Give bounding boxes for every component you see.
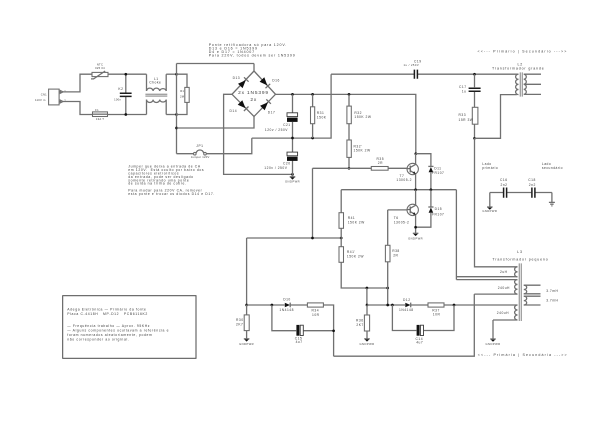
wire left bus vertical	[176, 64, 178, 154]
wire bridge minus to ground bus	[224, 94, 293, 174]
node T7 emitter / T6 collector	[414, 188, 417, 191]
svg-text:<<--- Primário | Secundário --: <<--- Primário | Secundário --->>	[477, 49, 567, 53]
ground GNDPWR L3	[486, 339, 501, 346]
svg-text:2n2: 2n2	[501, 183, 508, 187]
node C20 bottom	[291, 173, 294, 176]
svg-text:13A T: 13A T	[96, 117, 104, 121]
resistor R41 150K 2W	[339, 190, 365, 247]
wire bridge top stem	[253, 64, 255, 72]
ground GNDPWR R36	[360, 339, 375, 346]
capacitor C17 1u	[459, 74, 481, 107]
node R31 top	[311, 93, 314, 96]
wire drop to pulse line	[246, 238, 248, 305]
svg-text:GNDPWR: GNDPWR	[486, 342, 501, 346]
svg-text:T6: T6	[394, 216, 399, 220]
svg-text:D15: D15	[435, 207, 443, 211]
node C21 top	[291, 93, 294, 96]
svg-text:Transformador grande: Transformador grande	[492, 67, 545, 71]
capacitor C16 2n2	[490, 178, 532, 198]
svg-text:2R: 2R	[378, 161, 383, 165]
ground GNDPWR T6	[408, 233, 423, 240]
svg-text:2n2: 2n2	[529, 183, 536, 187]
fuse F1	[93, 108, 108, 121]
svg-text:GNDPWR: GNDPWR	[285, 179, 300, 183]
svg-text:primário: primário	[482, 166, 498, 170]
transformer L2 primary	[516, 74, 519, 94]
resistor R32 150K 2W	[347, 94, 372, 140]
svg-text:R33: R33	[459, 113, 467, 117]
resistor R32b 150K 2W	[347, 140, 371, 168]
resistor R31 150K	[311, 94, 327, 138]
svg-text:T7: T7	[400, 174, 405, 178]
svg-text:150K 2W: 150K 2W	[354, 115, 371, 119]
wire T7 base line	[313, 167, 408, 169]
svg-text:— Alguns componentes ocultavam: — Alguns componentes ocultavam a referên…	[67, 329, 169, 333]
rectifier bridge outline	[232, 71, 276, 117]
svg-text:<<--- Primária | Secundária --: <<--- Primária | Secundária --->>	[478, 353, 568, 357]
ground earth C18	[549, 193, 555, 206]
svg-text:D10: D10	[283, 297, 291, 301]
resistor R34 10R	[307, 303, 333, 356]
svg-text:4u7: 4u7	[416, 341, 423, 345]
node R41b line mid	[366, 287, 369, 290]
node feedback drop	[311, 237, 314, 240]
ground GNDPWR C20	[285, 174, 300, 183]
svg-text:C16: C16	[500, 178, 508, 182]
node T7 collector / D11 top	[414, 152, 417, 155]
node winding3 feed	[453, 304, 456, 307]
node D11 bottom / D15 top	[430, 188, 433, 191]
wire bottom feedback rail	[334, 294, 475, 356]
svg-text:1N4148: 1N4148	[279, 308, 294, 312]
wire T6 rail to L3 tap	[456, 190, 517, 280]
svg-text:secundário: secundário	[542, 166, 563, 170]
transformer L3 winding3 240uH	[515, 305, 518, 320]
node jumper-line R31	[311, 137, 314, 140]
node base line R32b	[348, 167, 351, 170]
transformer L3 secondary B	[524, 296, 541, 305]
wire choke top out	[166, 73, 176, 75]
node C15 return	[332, 329, 335, 332]
svg-text:F1: F1	[95, 108, 99, 112]
wire L3 winding3 top lead	[515, 304, 518, 306]
wire L3 winding3 bottom lead	[493, 320, 518, 339]
wire base feedback drop	[247, 168, 342, 238]
svg-text:Transformador pequeno: Transformador pequeno	[492, 257, 548, 261]
wire jumper midpoint line	[252, 74, 331, 138]
capacitor C14 4u7	[392, 305, 454, 345]
svg-text:2K7: 2K7	[356, 323, 363, 327]
wire pulse line 1	[247, 304, 285, 306]
svg-text:Para 220V, todos devem ser 1N5: Para 220V, todos devem ser 1N5399	[209, 53, 296, 57]
svg-text:Jumper 120V: Jumper 120V	[191, 155, 210, 159]
capacitor K2 100n	[114, 74, 132, 114]
svg-text:3.7mH: 3.7mH	[546, 289, 558, 293]
svg-text:Choke: Choke	[149, 81, 161, 85]
resistor R37 10R	[428, 303, 515, 317]
resistor R38 2R	[385, 210, 399, 305]
ground GNDPWR C16	[482, 193, 497, 213]
diode D13	[233, 76, 249, 88]
svg-text:1u: 1u	[462, 89, 467, 93]
wire emitter rail	[341, 189, 456, 191]
svg-text:D17: D17	[268, 110, 276, 114]
wire mid drop to pulse line	[366, 288, 368, 305]
svg-text:120v / 250V: 120v / 250V	[264, 166, 287, 170]
node C15 branch	[271, 304, 274, 307]
svg-text:Placa C-4418H MP-D12 PCB61: Placa C-4418H MP-D12 PCB6116K2	[67, 312, 148, 316]
svg-text:C19: C19	[414, 59, 422, 63]
note title box	[63, 296, 196, 359]
diode D11 FR107	[428, 166, 444, 189]
wire NTC to node	[108, 73, 147, 75]
svg-text:C21: C21	[283, 123, 291, 127]
node R33 bottom	[473, 137, 476, 140]
wire pin1 to NTC	[63, 74, 92, 92]
svg-text:240uH: 240uH	[497, 311, 509, 315]
node T6 emitter	[414, 226, 417, 229]
svg-text:JP1: JP1	[196, 144, 203, 148]
jumper JP1	[177, 138, 252, 159]
wire choke bottom out	[166, 114, 176, 116]
wire fuse to node	[108, 114, 147, 116]
svg-text:2uH: 2uH	[500, 270, 508, 274]
capacitor C18 2n2	[528, 178, 552, 198]
svg-text:K2: K2	[118, 87, 123, 91]
resistor R30 2K7	[236, 305, 249, 339]
transformer L3 winding1 2uH	[515, 267, 518, 277]
diode D17	[260, 99, 275, 114]
svg-text:não corresponder ao original.: não corresponder ao original.	[67, 337, 129, 341]
resistor R41b 150K 2W	[339, 247, 388, 288]
svg-text:D13: D13	[233, 76, 241, 80]
connector CN1	[35, 89, 66, 105]
wire T6 base line	[388, 209, 407, 211]
transformer L2 core	[520, 72, 522, 96]
svg-text:CN1: CN1	[41, 93, 47, 97]
resistor R35 2R	[371, 157, 388, 170]
node R38 chain join	[386, 287, 389, 290]
transistor T6 13005-2	[394, 190, 419, 234]
svg-text:GNDPWR: GNDPWR	[360, 342, 375, 346]
svg-text:150K 2W: 150K 2W	[348, 220, 365, 224]
note rectifier text	[209, 43, 296, 58]
node R41 midpoint	[340, 237, 343, 240]
svg-text:2R: 2R	[393, 253, 398, 257]
svg-text:de solda na trilha de cobre.: de solda na trilha de cobre.	[128, 182, 186, 186]
svg-text:1N4148: 1N4148	[399, 308, 414, 312]
wire L2 primary return	[475, 95, 517, 139]
capacitor C19 1u/250V	[331, 59, 518, 79]
svg-text:D16: D16	[272, 78, 280, 82]
node junction top K2	[124, 73, 127, 76]
node C14 branch	[391, 304, 394, 307]
svg-text:025 04: 025 04	[95, 66, 105, 70]
svg-text:L3: L3	[517, 250, 523, 254]
svg-text:150K 2W: 150K 2W	[347, 254, 364, 258]
transformer L3 core	[519, 263, 521, 321]
wire top rail to bridge	[177, 63, 255, 65]
transformer L2 secondary	[524, 74, 541, 94]
svg-text:foram numerados aleatoriamente: foram numerados aleatoriamente, podem	[67, 333, 152, 337]
svg-text:13005-2: 13005-2	[394, 220, 410, 224]
resistor R1 2M	[177, 74, 190, 114]
transistor T7 13005-2	[396, 154, 418, 190]
svg-text:3.7mH: 3.7mH	[546, 299, 558, 303]
node pulse line 2 left	[366, 304, 369, 307]
svg-text:D11: D11	[434, 167, 441, 171]
svg-text:15R 3W: 15R 3W	[459, 118, 474, 122]
svg-text:— Frequência trabalho — Aprox.: — Frequência trabalho — Aprox. 95KHz	[67, 324, 150, 328]
svg-text:2x: 2x	[250, 97, 257, 103]
transformer L3 winding2 240uH	[515, 280, 518, 295]
svg-text:FR107: FR107	[432, 171, 444, 175]
node R38 bottom	[386, 304, 389, 307]
svg-text:Adega Eletrônica — Primário da: Adega Eletrônica — Primário da fonte	[67, 308, 146, 312]
svg-text:GNDPWR: GNDPWR	[408, 236, 423, 240]
svg-text:100n: 100n	[114, 97, 121, 101]
svg-text:150K: 150K	[317, 115, 327, 119]
note jumper text	[128, 165, 215, 196]
wire pulse line 2	[367, 304, 405, 306]
resistor R36 2K7	[356, 305, 370, 339]
diode D14	[230, 100, 249, 113]
svg-text:120v / 250V: 120v / 250V	[265, 128, 288, 132]
wire HV+ rail	[276, 94, 416, 153]
svg-text:R36: R36	[356, 319, 364, 323]
resistor R33 15R 3W	[459, 107, 478, 138]
svg-text:4u7: 4u7	[296, 340, 303, 344]
diode D15 FR107	[416, 190, 445, 228]
thermistor NTC	[91, 62, 108, 79]
ground GNDPWR R30	[239, 339, 254, 346]
capacitor C20 120u/250V	[264, 138, 297, 174]
svg-text:2x 1N5399: 2x 1N5399	[238, 90, 269, 96]
diode D10 1N4148	[279, 297, 307, 311]
svg-text:C20: C20	[283, 161, 291, 165]
svg-text:FR107: FR107	[432, 213, 444, 217]
wire L3 winding2 bottom lead	[474, 293, 517, 295]
node bus jumper tap	[175, 127, 178, 130]
svg-text:2K7: 2K7	[236, 323, 243, 327]
node junction bottom K2	[124, 113, 127, 116]
svg-text:110V in: 110V in	[35, 98, 46, 102]
node choke bottom	[175, 113, 178, 116]
svg-text:C18: C18	[528, 178, 536, 182]
node R32 top	[348, 93, 351, 96]
svg-text:NTC: NTC	[97, 62, 103, 66]
wire pin2 to fuse	[63, 102, 93, 115]
svg-text:10R: 10R	[433, 313, 441, 317]
inductor L1 choke	[145, 74, 167, 114]
node C17 top	[473, 73, 476, 76]
capacitor C21 120u/250V	[265, 94, 298, 138]
diode D16	[260, 77, 280, 88]
transformer L3 secondary A	[524, 285, 541, 294]
svg-text:150K 2W: 150K 2W	[354, 149, 371, 153]
svg-text:2M: 2M	[180, 95, 185, 99]
diode D12 1N4148	[399, 298, 428, 312]
capacitor C15 4u7	[272, 305, 334, 344]
svg-text:GNDPWR: GNDPWR	[482, 209, 497, 213]
node jumper-line C21	[291, 137, 294, 140]
svg-text:240uH: 240uH	[498, 286, 510, 290]
svg-text:13005-2: 13005-2	[396, 178, 412, 182]
wire bridge bottom to bus	[177, 117, 255, 129]
svg-text:1u / 250V: 1u / 250V	[404, 63, 420, 67]
svg-text:D14: D14	[230, 109, 238, 113]
svg-text:10R: 10R	[312, 313, 320, 317]
svg-text:R30: R30	[236, 318, 244, 322]
svg-text:R1: R1	[180, 89, 184, 93]
svg-text:esta ponte e trocar os diodos: esta ponte e trocar os diodos D14 e D17.	[128, 192, 215, 196]
svg-text:GNDPWR: GNDPWR	[239, 342, 254, 346]
node choke top	[175, 73, 178, 76]
wire D11 top branch	[416, 154, 431, 167]
wire L3 winding1 top lead	[475, 138, 518, 266]
svg-text:D12: D12	[403, 298, 411, 302]
node pulse line left end	[245, 304, 248, 307]
